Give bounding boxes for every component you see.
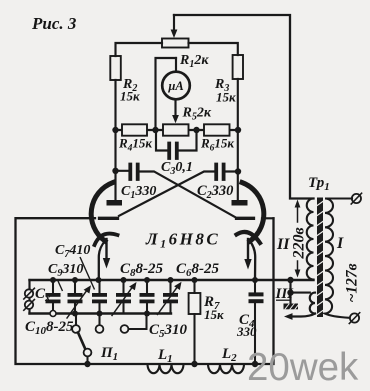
transformer Тр1 [284,193,362,323]
terminal top right [352,194,361,203]
tube left grid dashes [100,217,118,220]
LABELS-TOP [31,14,236,251]
svg-text:L2: L2 [221,346,237,364]
tube left cathode [95,234,118,245]
svg-text:C5310: C5310 [149,322,188,340]
node open circle on bottom bus at C9 [50,311,56,317]
switch П1 contact 2 [98,314,100,325]
tube envelope left arc [91,183,113,242]
svg-text:Тр1: Тр1 [308,175,330,193]
svg-text:15к: 15к [216,90,236,105]
capacitor C1 [130,165,137,180]
meter microammeter circle [162,72,190,100]
wire capacitor bank bottom bus [30,312,172,314]
svg-text:II: II [276,236,290,253]
terminal Cx upper [25,289,33,297]
wire meter bottom arrow to R5 wiper [174,99,176,116]
wire C3 right to bus [177,130,197,151]
resistor R7 [189,293,201,314]
node dots top bus [50,277,258,283]
svg-text:П1: П1 [100,345,118,363]
svg-text:330: 330 [236,324,257,339]
svg-text:C9310: C9310 [48,262,83,279]
svg-text:R52к: R52к [182,106,212,123]
transformer winding I [325,199,352,318]
resistor R4 [122,124,147,135]
transformer core [317,198,324,318]
wire R2 bottom to bus and to left anode [114,80,116,200]
wire R1 wiper arrow [173,15,175,31]
capacitor C6 trimmer [158,280,182,315]
svg-text:R12к: R12к [179,53,209,70]
svg-text:Л16Н8С: Л16Н8С [145,230,220,251]
wire R3 bottom down to bus and right anode [237,79,239,200]
wire R1 right to R3 [189,43,238,55]
capacitor C5 [140,280,155,314]
capacitor C8 trimmer [112,280,137,316]
wire meter top lead [175,58,177,72]
wire C1 right diagonal to right grid [138,172,235,218]
wire R1 left to R2 [116,43,163,56]
inductor L1 [148,364,184,373]
transformer winding II [307,199,314,280]
wire C2 left diagonal to left grid [119,172,216,216]
wire C2 right to node [224,170,238,172]
wire right cathode lead down to bus [250,241,255,280]
tube left heater arrow [105,239,107,260]
switch П1 contact 1 [75,314,77,325]
svg-text:C7410: C7410 [55,243,90,260]
switch П1 lever [78,333,85,350]
node C1 junction [112,168,118,174]
tube envelope right arc [242,183,264,242]
svg-text:R415к: R415к [118,136,152,154]
svg-text:15к: 15к [120,89,140,104]
capacitor C3 [169,144,177,159]
wire winding III bottom to heater arrow [292,314,316,317]
switch П1 pivot [84,349,92,357]
resistor R5 [163,124,189,135]
wire pivot to rail [86,357,88,365]
resistor R6 [204,124,230,135]
wire top rail from R1 wiper to transformer [174,15,314,199]
wire tank box frame left and bottom and right rail [16,218,274,364]
LABELS-BOTTOM [25,175,361,365]
tube left anode plate [107,200,123,206]
svg-text:15к: 15к [204,307,224,322]
tube right grid dashes [237,217,254,220]
node dots transformer [287,277,293,283]
inductor L2 [208,364,244,373]
node dots bottom bus [72,311,150,317]
wire C1 left to node [116,170,131,172]
svg-text:Рис. 3: Рис. 3 [31,14,77,33]
capacitor C4 [254,280,256,364]
node junction dots on bus [112,127,241,133]
terminal Cx lower [25,301,33,309]
svg-text:R615к: R615к [200,136,234,154]
svg-text:C108-25: C108-25 [25,319,74,337]
resistor R1 [162,39,189,48]
svg-text:I: I [336,235,344,252]
wire C3 left to bus [156,130,169,151]
capacitor C7 [92,280,107,314]
wire left cathode lead down to bus [99,241,105,280]
dimension 220в arrows [297,206,299,222]
svg-text:C88-25: C88-25 [120,261,164,279]
wire right grid exit to tank rail [262,217,274,219]
terminal bottom right [350,313,359,322]
wire winding II bottom branch [291,280,310,293]
wire capacitor bank top bus [30,279,314,281]
svg-text:20wek: 20wek [247,346,359,389]
capacitor C9 [46,280,61,314]
svg-text:L1: L1 [157,347,173,365]
tube right heater arrow [247,239,249,261]
svg-text:C2330: C2330 [197,183,233,201]
tube right cathode [237,232,261,243]
capacitor C2 [216,165,223,180]
svg-text:C68-25: C68-25 [176,261,220,279]
wire Cx terminal drop [28,280,30,314]
wire bus R4 R5 R6 [116,129,239,131]
svg-text:C1330: C1330 [121,184,156,201]
svg-text:C30,1: C30,1 [161,160,193,177]
svg-text:µА: µА [167,79,184,93]
resistor R2 [110,56,121,80]
capacitor bank [46,277,264,373]
resistor R3 [233,55,243,79]
tube right anode plate [232,200,248,206]
switch П1 contact 3 [121,325,129,333]
ground chassis symbol [289,293,291,304]
svg-text:~127в: ~127в [344,263,361,302]
svg-text:220в: 220в [291,227,308,259]
wire meter branch loop [156,58,177,130]
svg-text:Cх: Cх [35,286,51,304]
capacitor C10 trimmer [67,280,91,318]
transformer winding III [310,293,315,314]
node C2 junction [235,168,241,174]
